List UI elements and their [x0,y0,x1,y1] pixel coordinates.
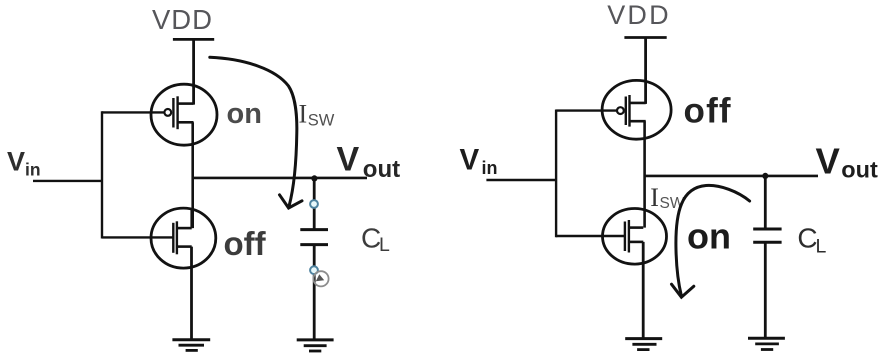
node marker blue circle lower (left) [310,266,318,274]
svg-text:I: I [299,99,308,128]
wire PMOS drain to NMOS drain (left output column) [191,122,194,228]
nmos M2 drain arm (left) [177,227,192,230]
pmos M3 channel plate (right) [628,95,630,127]
input branch vertical (left) [101,111,103,238]
svg-text:off: off [684,91,732,130]
load capacitor label CL (left) [361,222,390,256]
svg-text:VDD: VDD [152,4,213,35]
nmos M4 body circle (right) [603,209,667,265]
svg-text:V: V [816,141,841,182]
svg-text:in: in [482,158,498,178]
svg-text:SW: SW [308,112,335,130]
ground symbol main (right) [625,339,662,350]
svg-text:out: out [841,157,878,183]
svg-text:out: out [363,156,400,183]
input wire (right) [486,179,556,181]
pmos M1 drain arm (left) [178,121,194,124]
wire branch to PMOS gate (right) [556,109,617,111]
wire VDD rail to PMOS source (right) [644,38,647,104]
wire CL bottom to ground (right) [764,242,767,338]
ground symbol main (left) [172,340,210,351]
pmos M3 gate bubble (right) [617,107,624,114]
pmos M1 source arm (left) [178,102,194,105]
wire output node to Vout (left) [193,177,367,180]
wire NMOS drain up to output column (left) [190,209,193,229]
wire CL bottom to ground (left) [313,245,316,340]
switching current arrow (right) [672,185,750,297]
input label Vin (right) [460,143,498,178]
nmos M2 channel plate (left) [176,221,178,254]
nmos M2 source arm (left) [177,245,192,248]
input wire (left) [33,180,102,182]
annotation cursor circle icon (left) [313,271,328,286]
svg-text:VDD: VDD [607,0,671,30]
wire branch to PMOS gate (left) [102,111,165,113]
wire output node down to CL (left) [313,178,316,229]
output label Vout (left) [337,140,401,183]
junction dot output/CL (left) [311,175,317,181]
svg-text:in: in [25,160,41,180]
pmos M3 drain arm (right) [630,120,646,123]
pmos M1 body circle (left) [151,84,217,145]
wire NMOS source to ground (right) [642,242,645,339]
junction dot output/CL (right) [762,173,768,179]
nmos M2 body circle (left) [151,208,216,268]
svg-text:V: V [460,143,480,176]
svg-text:L: L [816,236,827,258]
switching current arrow (left) [210,57,302,208]
wire NMOS source to ground (left) [190,247,193,340]
svg-text:V: V [7,147,25,177]
nmos M4 drain arm (right) [629,226,643,229]
wire PMOS drain to NMOS drain (right output column) [643,121,646,227]
pmos M3 source arm (right) [630,102,646,105]
node marker blue circle upper (left) [310,200,318,208]
nmos M4 channel plate (right) [628,220,630,253]
svg-text:on: on [687,215,731,256]
output label Vout (right) [816,141,879,183]
input label Vin (left) [7,147,41,180]
wire branch to NMOS gate (left) [102,236,173,238]
capacitor CL bottom plate (left) [300,243,328,246]
capacitor CL top plate (left) [300,228,328,231]
wire branch to NMOS gate (right) [556,235,625,237]
svg-text:V: V [337,140,360,178]
load capacitor label CL (right) [797,222,826,257]
ground symbol CL (right) [748,338,785,349]
svg-text:I: I [650,183,659,212]
pmos M3 gate plate (right) [625,97,627,126]
VDD rail (right) [624,36,666,39]
capacitor CL top plate (right) [753,228,781,231]
current label Isw (left) [299,99,335,129]
pmos M1 gate plate (left) [172,98,174,128]
current label Isw (right) [650,183,685,212]
wire output node to Vout (right) [645,175,818,178]
pmos M1 gate bubble (left) [164,109,171,116]
ground symbol CL (left) [297,340,334,351]
nmos M2 gate plate (left) [172,223,174,253]
input branch vertical (right) [555,110,557,238]
svg-text:L: L [379,234,390,256]
nmos M4 source arm (right) [629,241,643,244]
pmos M3 body circle (right) [602,80,671,139]
svg-text:on: on [227,98,262,130]
svg-text:off: off [224,225,267,262]
capacitor CL bottom plate (right) [753,241,781,244]
wire VDD rail to PMOS source (left) [192,39,195,104]
nmos M4 gate plate (right) [624,222,626,252]
pmos M1 channel plate (left) [176,96,178,129]
wire output node down to CL (right) [764,176,767,229]
VDD rail (left) [173,38,214,41]
